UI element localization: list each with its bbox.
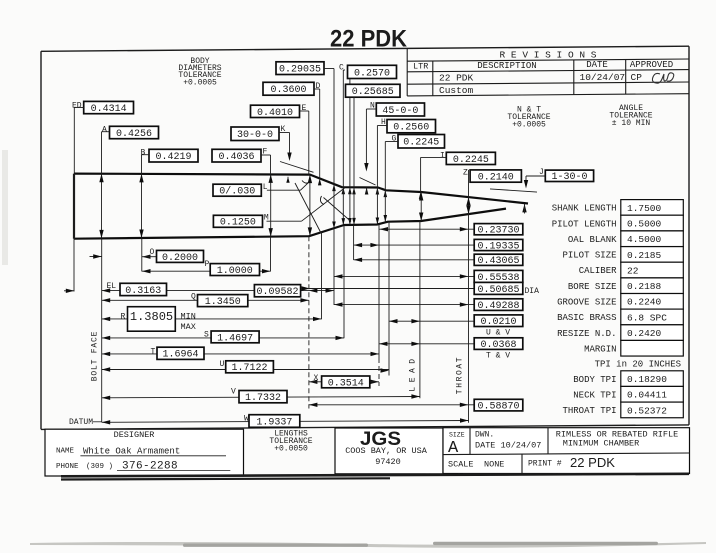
svg-text:0.4036: 0.4036 bbox=[218, 152, 254, 163]
dim 0.25685 leader bbox=[352, 97, 356, 225]
dim J leader bbox=[524, 176, 546, 189]
svg-text:CALIBER: CALIBER bbox=[579, 266, 617, 276]
svg-text:0.4219: 0.4219 bbox=[155, 152, 191, 163]
station line throat-start bbox=[378, 224, 380, 386]
dim J box 1-30-0 bbox=[539, 168, 594, 183]
dim E diameter arrow bbox=[308, 175, 312, 236]
dim K box 30-0-0 bbox=[231, 125, 286, 141]
station line lead bbox=[419, 221, 421, 398]
dim C leader bbox=[342, 70, 346, 225]
dim T row bbox=[102, 347, 379, 361]
svg-text:1.7332: 1.7332 bbox=[245, 393, 281, 404]
svg-text:SHANK LENGTH: SHANK LENGTH bbox=[552, 204, 617, 214]
svg-text:0.2240: 0.2240 bbox=[627, 297, 662, 308]
designer label bbox=[114, 430, 155, 440]
chamber profile bottom outline bbox=[74, 209, 506, 239]
svg-text:0.3514: 0.3514 bbox=[328, 378, 364, 389]
svg-text:0.23730: 0.23730 bbox=[477, 226, 519, 237]
svg-text:TPI in 20 INCHES: TPI in 20 INCHES bbox=[595, 359, 681, 369]
shoulder angle small arrow bbox=[286, 177, 289, 183]
dim F leader bbox=[261, 155, 271, 174]
dim G leader bbox=[384, 142, 399, 223]
svg-text:+0.0050: +0.0050 bbox=[274, 445, 308, 454]
svg-text:DESIGNER: DESIGNER bbox=[114, 430, 155, 440]
dim H leader bbox=[376, 126, 387, 225]
svg-text:0.18290: 0.18290 bbox=[627, 374, 667, 385]
svg-text:MAX: MAX bbox=[181, 322, 196, 332]
station line B below bbox=[141, 238, 143, 272]
dim B leader bbox=[142, 155, 150, 174]
svg-text:DESCRIPTION: DESCRIPTION bbox=[477, 61, 536, 71]
dim 0.55538 row bbox=[334, 270, 523, 283]
svg-text:0.2188: 0.2188 bbox=[627, 281, 662, 292]
svg-text:0.4010: 0.4010 bbox=[257, 108, 293, 119]
svg-text:0.09582: 0.09582 bbox=[256, 287, 298, 298]
svg-text:Z: Z bbox=[463, 169, 468, 178]
spec table bbox=[552, 200, 684, 356]
svg-text:1-30-0: 1-30-0 bbox=[551, 172, 587, 183]
dim 0.19335 row bbox=[354, 239, 523, 252]
dim R row bbox=[102, 307, 322, 332]
svg-text:PILOT LENGTH: PILOT LENGTH bbox=[552, 219, 617, 229]
svg-text:1.3450: 1.3450 bbox=[205, 297, 241, 308]
svg-text:DWN.: DWN. bbox=[475, 431, 494, 440]
svg-text:BODY TPI: BODY TPI bbox=[573, 375, 616, 385]
svg-text:NAME: NAME bbox=[56, 448, 75, 456]
station line 0.29035 below bbox=[333, 228, 335, 305]
N&T tolerance note bbox=[507, 106, 550, 130]
svg-text:22 PDK: 22 PDK bbox=[330, 26, 408, 53]
svg-text:T: T bbox=[151, 348, 156, 357]
svg-text:30-0-0: 30-0-0 bbox=[237, 130, 273, 141]
scan shadow bottom bbox=[30, 542, 706, 548]
dim 0.58870 row bbox=[309, 399, 523, 412]
svg-text:4.5000: 4.5000 bbox=[627, 234, 662, 245]
svg-text:0.2560: 0.2560 bbox=[393, 123, 429, 134]
construction diagonal steep bbox=[295, 183, 321, 233]
dim EL row bbox=[64, 282, 334, 298]
dim 0.25685 box bbox=[346, 84, 401, 98]
JGS logo bbox=[360, 428, 401, 450]
station line R-end bbox=[321, 232, 323, 319]
svg-text:I: I bbox=[440, 152, 445, 161]
dim G box bbox=[392, 135, 445, 149]
station line U-end bbox=[388, 222, 390, 376]
svg-text:BOLT FACE: BOLT FACE bbox=[91, 331, 100, 381]
dim I leader bbox=[419, 157, 447, 199]
svg-text:0.58870: 0.58870 bbox=[477, 402, 519, 413]
svg-text:EL: EL bbox=[107, 282, 117, 291]
dim S row bbox=[102, 331, 344, 345]
svg-text:6.8 SPC: 6.8 SPC bbox=[627, 312, 667, 323]
svg-text:1.0000: 1.0000 bbox=[217, 266, 253, 277]
dim L box 0/.030 bbox=[213, 183, 268, 198]
svg-text:BASIC BRASS: BASIC BRASS bbox=[557, 313, 616, 323]
lead label bbox=[409, 354, 418, 391]
svg-text:APPROVED: APPROVED bbox=[630, 60, 673, 70]
dim E leader bbox=[300, 111, 309, 175]
dim Z box bbox=[463, 169, 521, 184]
svg-text:45-0-0: 45-0-0 bbox=[382, 106, 418, 117]
svg-text:DATUM: DATUM bbox=[69, 418, 93, 427]
dim M leader bbox=[267, 188, 346, 222]
svg-text:X: X bbox=[314, 374, 319, 383]
dwn cell bbox=[475, 431, 541, 451]
bolt face label bbox=[91, 331, 100, 381]
svg-text:0.04411: 0.04411 bbox=[627, 390, 667, 401]
svg-text:G: G bbox=[392, 135, 397, 144]
svg-text:MARGIN: MARGIN bbox=[584, 345, 616, 355]
dim O row bbox=[90, 248, 204, 264]
revision row 1: 22 PDK bbox=[439, 72, 642, 84]
title 22 PDK bbox=[330, 26, 408, 53]
station line throat-end bbox=[468, 213, 470, 423]
svg-text:0.29035: 0.29035 bbox=[279, 65, 321, 76]
dim P row bbox=[142, 260, 271, 277]
station line C below bbox=[343, 225, 345, 338]
dim 0.50685 row bbox=[302, 282, 540, 296]
svg-text:E: E bbox=[302, 104, 307, 113]
dim Z leader bbox=[468, 170, 470, 198]
svg-text:22: 22 bbox=[627, 265, 639, 276]
dim H box bbox=[381, 118, 436, 134]
svg-text:0.3600: 0.3600 bbox=[270, 85, 306, 96]
datum label bbox=[69, 418, 102, 427]
svg-text:0.2000: 0.2000 bbox=[162, 253, 198, 264]
svg-text:A: A bbox=[448, 439, 459, 458]
svg-text:R: R bbox=[121, 313, 126, 322]
dim 0.49288 row bbox=[334, 299, 523, 312]
dim 0.0210 row bbox=[389, 315, 523, 337]
svg-text:0.2140: 0.2140 bbox=[478, 173, 514, 184]
dashed station line shoulder bbox=[308, 236, 310, 408]
svg-text:RESIZE N.D.: RESIZE N.D. bbox=[557, 329, 616, 339]
svg-text:0.0368: 0.0368 bbox=[480, 340, 516, 351]
svg-text:BORE SIZE: BORE SIZE bbox=[568, 282, 617, 292]
revisions header bbox=[500, 50, 597, 61]
lengths tolerance note bbox=[269, 430, 312, 454]
dim Q row bbox=[102, 293, 309, 309]
dim A leader bbox=[102, 132, 110, 174]
svg-text:MINIMUM CHAMBER: MINIMUM CHAMBER bbox=[563, 439, 640, 449]
JGS address bbox=[345, 446, 428, 467]
svg-text:DATE 10/24/07: DATE 10/24/07 bbox=[475, 440, 541, 450]
dim N box 45-0-0 bbox=[370, 102, 425, 117]
svg-text:+0.0005: +0.0005 bbox=[512, 121, 546, 130]
svg-text:1.4697: 1.4697 bbox=[217, 333, 253, 344]
bolt face datum line bbox=[101, 238, 103, 422]
svg-text:0.43065: 0.43065 bbox=[477, 256, 519, 267]
svg-text:SIZE: SIZE bbox=[449, 432, 465, 439]
dim E box bbox=[251, 104, 307, 119]
svg-text:10/24/07: 10/24/07 bbox=[580, 72, 626, 83]
svg-text:THROAT: THROAT bbox=[456, 356, 465, 394]
svg-text:22 PDK: 22 PDK bbox=[570, 456, 616, 470]
svg-text:1.3805: 1.3805 bbox=[130, 310, 173, 324]
svg-text:0.2570: 0.2570 bbox=[354, 68, 390, 79]
svg-text:0.3163: 0.3163 bbox=[125, 286, 161, 297]
dim F box bbox=[212, 148, 268, 164]
svg-text:1.9337: 1.9337 bbox=[256, 417, 292, 428]
chamber type bbox=[556, 429, 678, 448]
svg-text:0.4256: 0.4256 bbox=[116, 129, 152, 140]
svg-text:PHONE: PHONE bbox=[56, 463, 79, 471]
svg-text:22 PDK: 22 PDK bbox=[439, 73, 474, 84]
chamber profile top outline bbox=[74, 174, 528, 204]
dim I diameter arrow bbox=[419, 192, 423, 221]
drawing frame border bbox=[41, 46, 689, 429]
size cell bbox=[448, 432, 465, 459]
JGS box bbox=[335, 428, 443, 474]
dim X row bbox=[309, 374, 379, 389]
title block grid bbox=[443, 428, 690, 474]
svg-text:0.50685: 0.50685 bbox=[477, 285, 519, 296]
svg-text:DATE: DATE bbox=[586, 60, 608, 70]
dim B diameter arrow bbox=[139, 174, 143, 238]
dim W row bbox=[102, 415, 469, 429]
dim I box bbox=[440, 152, 495, 166]
dim 0.43065 row bbox=[354, 254, 523, 267]
svg-text:Q: Q bbox=[191, 293, 196, 302]
dim K leader bbox=[279, 133, 292, 162]
svg-text:V: V bbox=[231, 388, 236, 397]
svg-text:1.7122: 1.7122 bbox=[231, 363, 267, 374]
svg-text:0.4314: 0.4314 bbox=[91, 104, 127, 115]
dim ED leader bbox=[74, 108, 83, 174]
dim ED box bbox=[72, 101, 134, 115]
svg-text:0.1250: 0.1250 bbox=[220, 218, 256, 229]
svg-text:0.49288: 0.49288 bbox=[477, 301, 519, 312]
svg-text:NECK TPI: NECK TPI bbox=[573, 391, 616, 401]
designer box bbox=[45, 429, 244, 476]
svg-text:CP: CP bbox=[631, 72, 643, 83]
revisions column headers bbox=[413, 60, 673, 72]
svg-text:0.0210: 0.0210 bbox=[480, 317, 516, 328]
svg-text:OAL BLANK: OAL BLANK bbox=[568, 235, 617, 245]
revisions table grid bbox=[407, 49, 689, 96]
TPI table bbox=[562, 371, 683, 418]
chamber profile left edge bbox=[73, 174, 75, 292]
svg-text:LEAD: LEAD bbox=[409, 354, 418, 391]
dim 0.2570 box bbox=[348, 65, 397, 79]
svg-text:O: O bbox=[150, 248, 155, 257]
svg-text:LTR: LTR bbox=[413, 61, 428, 71]
svg-text:± 10 MIN: ± 10 MIN bbox=[612, 119, 651, 128]
designer name bbox=[56, 446, 226, 456]
leade angle extension line bbox=[490, 189, 537, 192]
svg-text:THROAT TPI: THROAT TPI bbox=[562, 406, 616, 416]
dim N leader bbox=[364, 109, 376, 195]
dim V row bbox=[102, 388, 420, 405]
dim 0.0368 row bbox=[379, 338, 523, 361]
svg-text:SCALE: SCALE bbox=[448, 460, 474, 470]
svg-text:MIN: MIN bbox=[181, 312, 196, 322]
svg-text:PILOT SIZE: PILOT SIZE bbox=[562, 251, 616, 261]
svg-text:Custom: Custom bbox=[439, 85, 474, 96]
svg-text:S: S bbox=[204, 331, 209, 340]
dim B box bbox=[141, 149, 199, 164]
svg-text:0.19335: 0.19335 bbox=[477, 241, 519, 252]
dim M box 0.1250 bbox=[213, 214, 269, 229]
svg-text:0.25685: 0.25685 bbox=[352, 87, 394, 98]
dim L leader bbox=[267, 181, 309, 191]
svg-text:NONE: NONE bbox=[484, 460, 504, 470]
station line P-end bbox=[270, 237, 272, 272]
dim 0.23730 row bbox=[380, 224, 523, 237]
svg-text:White Oak Armament: White Oak Armament bbox=[83, 446, 180, 456]
svg-text:R E V I S I O N S: R E V I S I O N S bbox=[500, 50, 597, 61]
dim D box bbox=[263, 82, 321, 96]
svg-text:+0.0005: +0.0005 bbox=[183, 79, 217, 88]
construction diagonal shallow bbox=[320, 196, 351, 222]
svg-text:0.52372: 0.52372 bbox=[627, 405, 667, 416]
svg-text:97420: 97420 bbox=[375, 457, 401, 467]
svg-text:T & V: T & V bbox=[486, 351, 510, 360]
svg-text:0.2245: 0.2245 bbox=[453, 155, 489, 166]
scan shadow left edge bbox=[2, 150, 8, 265]
station line neck below bbox=[353, 225, 355, 260]
dim A box bbox=[102, 126, 159, 140]
revision row 2: Custom bbox=[439, 85, 474, 96]
shoulder angle extension line bbox=[280, 162, 314, 173]
svg-text:0.2420: 0.2420 bbox=[627, 328, 662, 339]
svg-text:0.2245: 0.2245 bbox=[403, 138, 439, 149]
body diameters tolerance note bbox=[178, 57, 221, 88]
angle tolerance note bbox=[609, 104, 652, 128]
dim D leader bbox=[314, 89, 322, 185]
dim C box 0.29035 bbox=[276, 62, 344, 76]
dim 0.2570 leader bbox=[348, 79, 352, 226]
dim F diameter arrow bbox=[269, 174, 273, 236]
svg-text:0.2185: 0.2185 bbox=[627, 250, 662, 261]
svg-text:P: P bbox=[205, 260, 210, 269]
leade end arrow bbox=[522, 204, 526, 214]
TPI note bbox=[595, 359, 681, 369]
svg-text:GROOVE SIZE: GROOVE SIZE bbox=[557, 298, 616, 308]
svg-text:1.6964: 1.6964 bbox=[162, 350, 198, 361]
dim 0.29035 leader bbox=[324, 69, 336, 229]
svg-text:(309 ): (309 ) bbox=[86, 463, 113, 471]
svg-text:0.5000: 0.5000 bbox=[627, 219, 662, 230]
throat label bbox=[456, 356, 465, 394]
svg-text:PRINT #: PRINT # bbox=[528, 460, 562, 469]
svg-text:A: A bbox=[102, 126, 107, 135]
dim U row bbox=[102, 360, 389, 374]
svg-text:1.7500: 1.7500 bbox=[627, 203, 662, 214]
print cell bbox=[528, 456, 616, 470]
scale cell bbox=[448, 460, 504, 470]
svg-text:DIA: DIA bbox=[525, 287, 540, 296]
approved signature bbox=[652, 73, 673, 83]
svg-text:U & V: U & V bbox=[486, 328, 510, 337]
dim A diameter arrow bbox=[99, 174, 103, 239]
svg-text:COOS BAY, OR USA: COOS BAY, OR USA bbox=[345, 446, 428, 456]
svg-text:ED: ED bbox=[72, 101, 82, 110]
svg-text:U: U bbox=[220, 360, 225, 369]
dim Z diameter arrow bbox=[466, 197, 470, 214]
svg-text:0/.030: 0/.030 bbox=[219, 186, 255, 198]
heavy bottom rule bbox=[61, 474, 689, 480]
neck chamfer extension line bbox=[360, 178, 376, 186]
designer phone bbox=[56, 461, 230, 473]
